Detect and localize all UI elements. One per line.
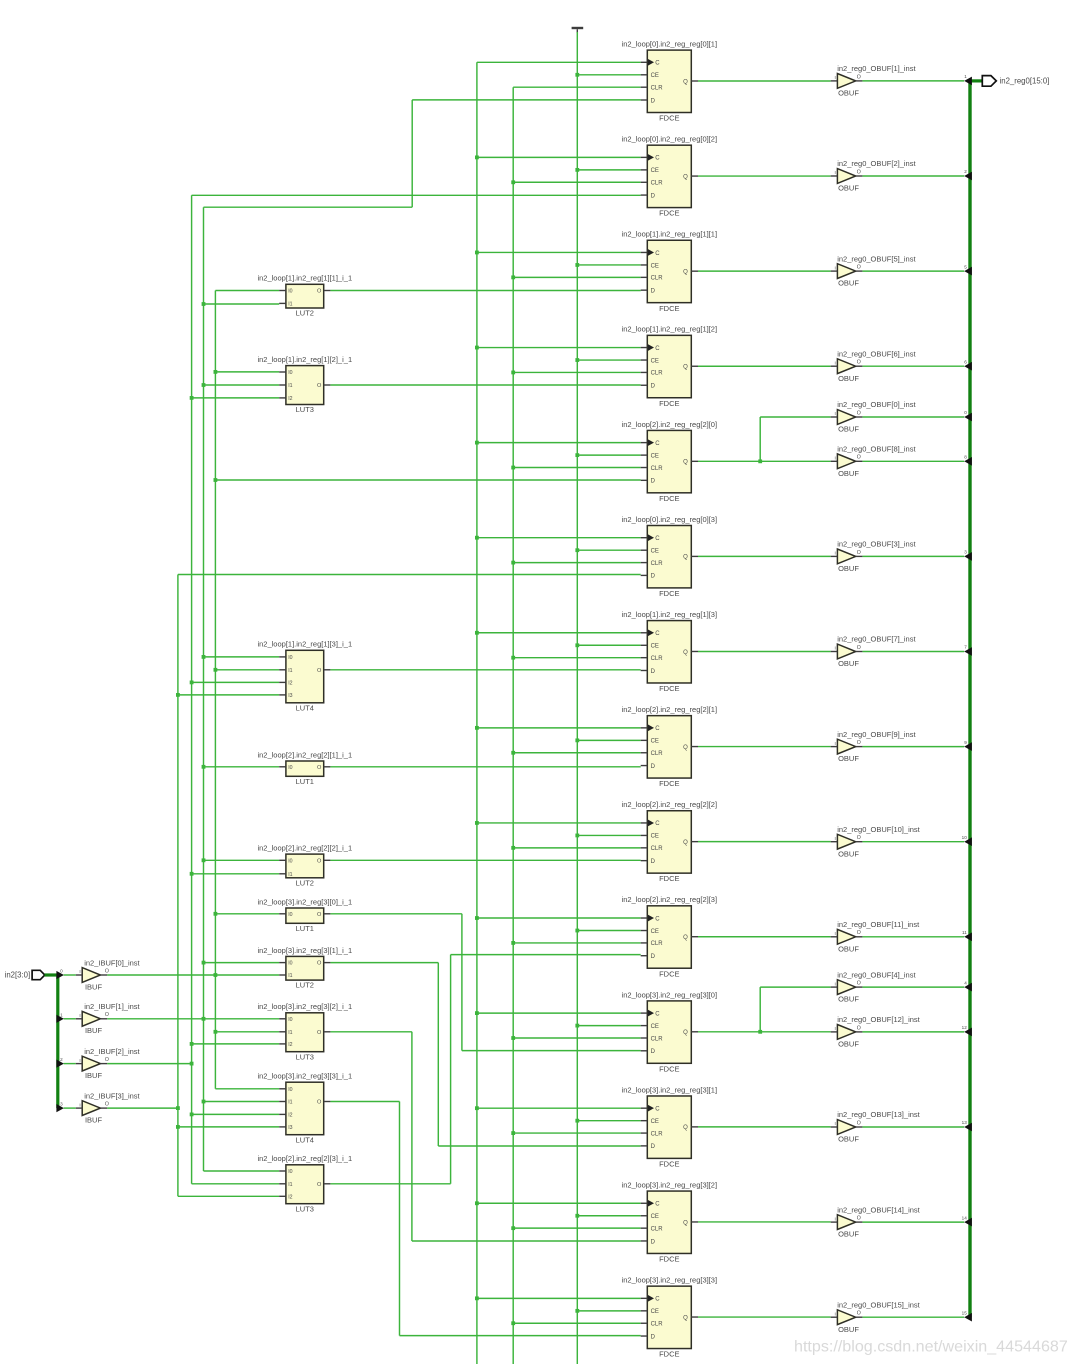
svg-text:in2_loop[3].in2_reg_reg[3][1]: in2_loop[3].in2_reg_reg[3][1] xyxy=(622,1085,718,1094)
svg-text:CE: CE xyxy=(651,549,659,555)
wire C into FDCE in2_loop[2].in2_reg_reg[2][1] xyxy=(475,726,641,730)
svg-text:Q: Q xyxy=(683,745,688,751)
svg-text:OBUF: OBUF xyxy=(838,1230,859,1239)
net LUT4[3][3] output to FDCE[3][3].D xyxy=(330,1102,640,1336)
svg-text:in2_reg0_OBUF[5]_inst: in2_reg0_OBUF[5]_inst xyxy=(837,254,916,263)
svg-text:in2_loop[1].in2_reg_reg[1][2]: in2_loop[1].in2_reg_reg[1][2] xyxy=(622,325,718,334)
wire CE into FDCE in2_loop[3].in2_reg_reg[3][3] xyxy=(575,1309,640,1313)
wire OBUF[3] output to out bus xyxy=(862,555,964,557)
LUT3 in2_loop[1].in2_reg[1][2]_i_1 xyxy=(257,355,352,414)
FDCE flip-flop in2_loop[1].in2_reg_reg[1][2] xyxy=(622,325,718,408)
svg-text:I0: I0 xyxy=(288,912,292,918)
wire CE into FDCE in2_loop[0].in2_reg_reg[0][3] xyxy=(575,548,640,552)
IBUF in2_IBUF[0]_inst xyxy=(76,958,141,991)
svg-text:FDCE: FDCE xyxy=(659,209,679,218)
net Q of in2_loop[3].in2_reg_reg[3][3] to OBUF xyxy=(698,1316,831,1318)
svg-text:in2_IBUF[1]_inst: in2_IBUF[1]_inst xyxy=(84,1002,140,1011)
svg-text:in2_loop[3].in2_reg_reg[3][2]: in2_loop[3].in2_reg_reg[3][2] xyxy=(622,1180,718,1189)
FDCE flip-flop in2_loop[2].in2_reg_reg[2][2] xyxy=(622,800,718,883)
wire C into FDCE in2_loop[2].in2_reg_reg[2][0] xyxy=(475,441,641,445)
net LUT3[2][3] output to FDCE[2][3].D xyxy=(330,955,640,1184)
wire OBUF[0] output to out bus xyxy=(862,416,964,418)
svg-text:O: O xyxy=(857,740,861,746)
svg-text:2: 2 xyxy=(60,1057,63,1062)
svg-text:I3: I3 xyxy=(288,693,292,699)
net LUT3[1][2] output to FDCE[1][2].D xyxy=(330,384,640,386)
svg-text:I0: I0 xyxy=(288,765,292,771)
wire CLR into FDCE in2_loop[3].in2_reg_reg[3][2] xyxy=(511,1226,640,1230)
svg-text:12: 12 xyxy=(962,1025,968,1030)
svg-text:I: I xyxy=(79,1058,80,1063)
svg-text:in2_IBUF[2]_inst: in2_IBUF[2]_inst xyxy=(84,1047,140,1056)
svg-text:I: I xyxy=(835,1121,836,1126)
svg-text:D: D xyxy=(651,954,656,960)
svg-text:CE: CE xyxy=(651,929,659,935)
svg-text:I0: I0 xyxy=(288,655,292,661)
wire C into FDCE in2_loop[1].in2_reg_reg[1][1] xyxy=(475,251,641,255)
svg-text:O: O xyxy=(317,289,322,295)
svg-text:LUT4: LUT4 xyxy=(296,703,314,712)
svg-text:C: C xyxy=(655,726,660,732)
svg-text:in2_loop[3].in2_reg_reg[3][3]: in2_loop[3].in2_reg_reg[3][3] xyxy=(622,1276,718,1285)
svg-text:O: O xyxy=(317,1030,322,1036)
svg-text:O: O xyxy=(857,360,861,366)
OBUF in2_reg0_OBUF[3]_inst xyxy=(831,540,917,573)
svg-text:OBUF: OBUF xyxy=(838,89,859,98)
svg-text:OBUF: OBUF xyxy=(838,564,859,573)
svg-text:O: O xyxy=(105,1102,109,1108)
svg-text:OBUF: OBUF xyxy=(838,374,859,383)
svg-text:LUT3: LUT3 xyxy=(296,1204,314,1213)
net in2_IBUF[1] : IBUF1 output to FDCE[0][1].D and LUT pins xyxy=(107,100,641,1171)
output bus tap arrow bit 12 xyxy=(962,1025,972,1036)
svg-text:C: C xyxy=(655,916,660,922)
net LUT1[3][0] output to FDCE[3][0].D xyxy=(330,914,640,1051)
svg-text:IBUF: IBUF xyxy=(85,982,103,991)
svg-text:I: I xyxy=(835,360,836,365)
svg-text:I: I xyxy=(835,75,836,80)
svg-text:in2_reg0_OBUF[7]_inst: in2_reg0_OBUF[7]_inst xyxy=(837,635,916,644)
LUT4 in2_loop[1].in2_reg[1][3]_i_1 xyxy=(257,640,352,713)
svg-text:O: O xyxy=(317,858,322,864)
input port in2[3:0] xyxy=(5,970,59,1108)
svg-text:I2: I2 xyxy=(288,396,292,402)
svg-text:I: I xyxy=(835,1311,836,1316)
net LUT2[2][2] output to FDCE[2][2].D xyxy=(330,859,640,861)
wire C into FDCE in2_loop[2].in2_reg_reg[2][3] xyxy=(475,916,641,920)
svg-text:13: 13 xyxy=(962,1120,968,1125)
svg-text:1: 1 xyxy=(964,74,967,79)
svg-text:CLR: CLR xyxy=(651,466,664,472)
svg-text:Q: Q xyxy=(683,365,688,371)
LUT3 in2_loop[2].in2_reg[2][3]_i_1 xyxy=(257,1154,352,1213)
svg-text:O: O xyxy=(317,765,322,771)
svg-text:O: O xyxy=(857,550,861,556)
svg-text:I0: I0 xyxy=(288,289,292,295)
OBUF in2_reg0_OBUF[13]_inst xyxy=(831,1110,921,1143)
svg-text:LUT4: LUT4 xyxy=(296,1135,314,1144)
svg-text:O: O xyxy=(857,645,861,651)
svg-text:I: I xyxy=(79,1102,80,1107)
net LUT3[3][2] output to FDCE[3][2].D xyxy=(330,1032,640,1241)
wire CE into FDCE in2_loop[2].in2_reg_reg[2][2] xyxy=(575,834,640,838)
output port in2_reg0[15:0] xyxy=(982,76,1049,87)
OBUF in2_reg0_OBUF[6]_inst xyxy=(831,349,917,382)
wire CLR into FDCE in2_loop[2].in2_reg_reg[2][3] xyxy=(511,941,640,945)
svg-text:IBUF: IBUF xyxy=(85,1071,103,1080)
wire CE into FDCE in2_loop[3].in2_reg_reg[3][0] xyxy=(575,1024,640,1028)
svg-text:Q: Q xyxy=(683,1220,688,1226)
wire CE into FDCE in2_loop[0].in2_reg_reg[0][2] xyxy=(575,168,640,172)
svg-text:C: C xyxy=(655,1011,660,1017)
wire CE into FDCE in2_loop[2].in2_reg_reg[2][0] xyxy=(575,453,640,457)
svg-text:O: O xyxy=(857,1025,861,1031)
IBUF in2_IBUF[2]_inst xyxy=(76,1047,141,1080)
LUT4 in2_loop[3].in2_reg[3][3]_i_1 xyxy=(257,1072,352,1145)
svg-text:I0: I0 xyxy=(288,961,292,967)
LUT1 in2_loop[3].in2_reg[3][0]_i_1 xyxy=(257,897,352,933)
svg-text:in2_reg0[15:0]: in2_reg0[15:0] xyxy=(1000,77,1050,86)
wire CE into FDCE in2_loop[2].in2_reg_reg[2][3] xyxy=(575,929,640,933)
wire CLR into FDCE in2_loop[0].in2_reg_reg[0][2] xyxy=(511,180,640,184)
wire CLR into FDCE in2_loop[2].in2_reg_reg[2][1] xyxy=(511,751,640,755)
OBUF in2_reg0_OBUF[10]_inst xyxy=(831,825,921,858)
svg-text:I: I xyxy=(835,456,836,461)
svg-text:LUT2: LUT2 xyxy=(296,981,314,990)
svg-text:I: I xyxy=(835,411,836,416)
wire C into FDCE in2_loop[3].in2_reg_reg[3][2] xyxy=(475,1201,641,1205)
net Q of in2_loop[0].in2_reg_reg[0][1] to OBUF xyxy=(698,80,831,82)
svg-text:in2_reg0_OBUF[0]_inst: in2_reg0_OBUF[0]_inst xyxy=(837,400,916,409)
wire CLR into FDCE in2_loop[0].in2_reg_reg[0][3] xyxy=(511,561,640,565)
svg-text:in2_reg0_OBUF[10]_inst: in2_reg0_OBUF[10]_inst xyxy=(837,825,920,834)
svg-text:O: O xyxy=(317,1100,322,1106)
LUT3 in2_loop[3].in2_reg[3][2]_i_1 xyxy=(257,1002,352,1061)
FDCE flip-flop in2_loop[3].in2_reg_reg[3][0] xyxy=(622,990,718,1073)
wire CLR into FDCE in2_loop[3].in2_reg_reg[3][3] xyxy=(511,1321,640,1325)
svg-text:O: O xyxy=(857,410,861,416)
svg-text:Q: Q xyxy=(683,840,688,846)
svg-text:I0: I0 xyxy=(288,1169,292,1175)
svg-text:O: O xyxy=(317,912,322,918)
svg-text:in2_loop[2].in2_reg[2][2]_i_1: in2_loop[2].in2_reg[2][2]_i_1 xyxy=(257,844,352,853)
svg-text:Q: Q xyxy=(683,174,688,180)
svg-text:Q: Q xyxy=(683,555,688,561)
net in2_IBUF[3] : IBUF3 output to FDCE[0][3].D and LUT pins xyxy=(107,575,641,1197)
svg-text:0: 0 xyxy=(964,410,967,415)
svg-text:Q: Q xyxy=(683,79,688,85)
output bus tap arrow bit 3 xyxy=(964,550,972,561)
wire CE net trunk with top bar xyxy=(572,27,584,1364)
output bus tap arrow bit 7 xyxy=(964,645,972,656)
wire CLR into FDCE in2_loop[0].in2_reg_reg[0][1] xyxy=(513,86,641,88)
svg-text:I1: I1 xyxy=(288,1100,292,1106)
wire C into FDCE in2_loop[1].in2_reg_reg[1][3] xyxy=(475,631,641,635)
wire OBUF[12] output to out bus xyxy=(862,1031,964,1033)
svg-text:in2_loop[2].in2_reg_reg[2][2]: in2_loop[2].in2_reg_reg[2][2] xyxy=(622,800,718,809)
svg-text:I: I xyxy=(835,551,836,556)
svg-text:FDCE: FDCE xyxy=(659,779,679,788)
svg-text:C: C xyxy=(655,631,660,637)
svg-text:CE: CE xyxy=(651,73,659,79)
wire CLR into FDCE in2_loop[1].in2_reg_reg[1][3] xyxy=(511,656,640,660)
LUT2 in2_loop[2].in2_reg[2][2]_i_1 xyxy=(257,844,352,888)
IBUF in2_IBUF[1]_inst xyxy=(76,1002,141,1035)
svg-text:in2_loop[1].in2_reg_reg[1][3]: in2_loop[1].in2_reg_reg[1][3] xyxy=(622,610,718,619)
svg-text:C: C xyxy=(655,1297,660,1303)
svg-text:I1: I1 xyxy=(288,973,292,979)
wire CLR into FDCE in2_loop[3].in2_reg_reg[3][0] xyxy=(511,1036,640,1040)
svg-text:CE: CE xyxy=(651,358,659,364)
wire C into FDCE in2_loop[3].in2_reg_reg[3][1] xyxy=(475,1106,641,1110)
svg-text:I0: I0 xyxy=(288,1087,292,1093)
input bus tap arrow 1 xyxy=(56,1012,75,1023)
IBUF in2_IBUF[3]_inst xyxy=(76,1092,141,1125)
wire OBUF[2] output to out bus xyxy=(862,175,964,177)
svg-text:15: 15 xyxy=(962,1310,968,1315)
FDCE flip-flop in2_loop[2].in2_reg_reg[2][1] xyxy=(622,705,718,788)
svg-text:OBUF: OBUF xyxy=(838,849,859,858)
OBUF in2_reg0_OBUF[8]_inst xyxy=(831,445,917,478)
svg-text:I: I xyxy=(79,1013,80,1018)
svg-text:14: 14 xyxy=(962,1215,968,1220)
svg-text:O: O xyxy=(857,265,861,271)
wire CLR into FDCE in2_loop[2].in2_reg_reg[2][0] xyxy=(511,466,640,470)
svg-text:in2_reg0_OBUF[13]_inst: in2_reg0_OBUF[13]_inst xyxy=(837,1110,920,1119)
wire OBUF[14] output to out bus xyxy=(862,1221,964,1223)
svg-text:CE: CE xyxy=(651,1214,659,1220)
svg-text:OBUF: OBUF xyxy=(838,469,859,478)
wire OBUF[8] output to out bus xyxy=(862,460,964,462)
svg-text:FDCE: FDCE xyxy=(659,589,679,598)
svg-text:I: I xyxy=(835,836,836,841)
svg-text:in2_loop[1].in2_reg_reg[1][1]: in2_loop[1].in2_reg_reg[1][1] xyxy=(622,230,718,239)
svg-text:O: O xyxy=(857,455,861,461)
svg-text:I0: I0 xyxy=(288,1017,292,1023)
wire C into FDCE in2_loop[1].in2_reg_reg[1][2] xyxy=(475,346,641,350)
wire OBUF[6] output to out bus xyxy=(862,365,964,367)
wire CLR into FDCE in2_loop[1].in2_reg_reg[1][2] xyxy=(511,371,640,375)
svg-text:CLR: CLR xyxy=(651,751,664,757)
net Q of in2_loop[0].in2_reg_reg[0][2] to OBUF xyxy=(698,175,831,177)
wire CE into FDCE in2_loop[1].in2_reg_reg[1][3] xyxy=(575,643,640,647)
svg-text:O: O xyxy=(105,1057,109,1063)
svg-text:in2_loop[2].in2_reg[2][3]_i_1: in2_loop[2].in2_reg[2][3]_i_1 xyxy=(257,1154,352,1163)
wire OBUF[1] output to out bus xyxy=(862,80,964,82)
svg-text:I3: I3 xyxy=(288,1125,292,1131)
svg-text:in2_IBUF[3]_inst: in2_IBUF[3]_inst xyxy=(84,1092,140,1101)
svg-text:C: C xyxy=(655,821,660,827)
svg-text:1: 1 xyxy=(60,1012,63,1017)
svg-text:O: O xyxy=(317,961,322,967)
svg-text:in2_loop[3].in2_reg[3][3]_i_1: in2_loop[3].in2_reg[3][3]_i_1 xyxy=(257,1072,352,1081)
net Q of in2_loop[3].in2_reg_reg[3][2] to OBUF xyxy=(698,1221,831,1223)
output bus tap arrow bit 1 xyxy=(964,74,972,85)
wire CLR into FDCE in2_loop[3].in2_reg_reg[3][1] xyxy=(511,1131,640,1135)
FDCE flip-flop in2_loop[1].in2_reg_reg[1][1] xyxy=(622,230,718,313)
svg-text:FDCE: FDCE xyxy=(659,304,679,313)
svg-text:8: 8 xyxy=(964,455,967,460)
OBUF in2_reg0_OBUF[7]_inst xyxy=(831,635,917,668)
input bus tap arrow 0 xyxy=(56,969,75,980)
svg-text:CLR: CLR xyxy=(651,656,664,662)
OBUF in2_reg0_OBUF[14]_inst xyxy=(831,1205,921,1238)
svg-text:OBUF: OBUF xyxy=(838,995,859,1004)
svg-text:0: 0 xyxy=(60,969,63,974)
svg-text:CE: CE xyxy=(651,263,659,269)
svg-text:Q: Q xyxy=(683,1030,688,1036)
OBUF in2_reg0_OBUF[1]_inst xyxy=(831,64,917,97)
svg-text:D: D xyxy=(651,479,656,485)
svg-text:Q: Q xyxy=(683,269,688,275)
output bus tap arrow bit 2 xyxy=(964,169,972,180)
svg-text:FDCE: FDCE xyxy=(659,399,679,408)
output bus tap arrow bit 5 xyxy=(964,264,972,275)
svg-text:in2_loop[2].in2_reg_reg[2][1]: in2_loop[2].in2_reg_reg[2][1] xyxy=(622,705,718,714)
svg-text:CLR: CLR xyxy=(651,1322,664,1328)
svg-text:Q: Q xyxy=(683,650,688,656)
input bus tap arrow 3 xyxy=(56,1102,75,1113)
svg-text:Q: Q xyxy=(683,1125,688,1131)
svg-text:LUT1: LUT1 xyxy=(296,924,314,933)
svg-text:I: I xyxy=(79,969,80,974)
OBUF in2_reg0_OBUF[4]_inst xyxy=(831,970,917,1003)
svg-text:D: D xyxy=(651,1049,656,1055)
wire C into FDCE in2_loop[3].in2_reg_reg[3][3] xyxy=(475,1296,641,1300)
output bus tap arrow bit 11 xyxy=(962,930,972,941)
LUT1 in2_loop[2].in2_reg[2][1]_i_1 xyxy=(257,750,352,786)
svg-text:FDCE: FDCE xyxy=(659,494,679,503)
svg-text:FDCE: FDCE xyxy=(659,1255,679,1264)
svg-text:10: 10 xyxy=(962,835,968,840)
svg-text:I: I xyxy=(835,741,836,746)
svg-text:I: I xyxy=(835,646,836,651)
OBUF in2_reg0_OBUF[9]_inst xyxy=(831,730,917,763)
svg-text:2: 2 xyxy=(964,169,967,174)
svg-text:IBUF: IBUF xyxy=(85,1116,103,1125)
svg-text:OBUF: OBUF xyxy=(838,944,859,953)
svg-text:I2: I2 xyxy=(288,1112,292,1118)
OBUF in2_reg0_OBUF[11]_inst xyxy=(831,920,920,953)
svg-text:O: O xyxy=(857,1311,861,1317)
FDCE flip-flop in2_loop[3].in2_reg_reg[3][1] xyxy=(622,1085,718,1168)
net LUT2[3][1] output to FDCE[3][1].D xyxy=(330,963,640,1146)
svg-text:CLR: CLR xyxy=(651,1131,664,1137)
wire C into FDCE in2_loop[2].in2_reg_reg[2][2] xyxy=(475,821,641,825)
svg-text:in2_loop[3].in2_reg[3][0]_i_1: in2_loop[3].in2_reg[3][0]_i_1 xyxy=(257,897,352,906)
svg-text:D: D xyxy=(651,1334,656,1340)
wire OBUF[7] output to out bus xyxy=(862,651,964,653)
svg-text:OBUF: OBUF xyxy=(838,425,859,434)
svg-text:I1: I1 xyxy=(288,668,292,674)
wire CLR net trunk xyxy=(512,87,514,1364)
svg-text:D: D xyxy=(651,1144,656,1150)
svg-text:in2_loop[3].in2_reg_reg[3][0]: in2_loop[3].in2_reg_reg[3][0] xyxy=(622,990,718,999)
svg-text:CE: CE xyxy=(651,453,659,459)
wire CLR into FDCE in2_loop[2].in2_reg_reg[2][2] xyxy=(511,846,640,850)
svg-text:in2_reg0_OBUF[2]_inst: in2_reg0_OBUF[2]_inst xyxy=(837,159,916,168)
OBUF in2_reg0_OBUF[0]_inst xyxy=(831,400,917,433)
svg-text:I2: I2 xyxy=(288,1194,292,1200)
FDCE flip-flop in2_loop[0].in2_reg_reg[0][1] xyxy=(622,40,718,123)
net Q of in2_loop[1].in2_reg_reg[1][2] to OBUF xyxy=(698,365,831,367)
svg-text:in2_reg0_OBUF[15]_inst: in2_reg0_OBUF[15]_inst xyxy=(837,1300,920,1309)
svg-text:OBUF: OBUF xyxy=(838,1325,859,1334)
svg-text:D: D xyxy=(651,859,656,865)
svg-text:3: 3 xyxy=(964,550,967,555)
svg-text:LUT2: LUT2 xyxy=(296,878,314,887)
svg-text:in2_reg0_OBUF[9]_inst: in2_reg0_OBUF[9]_inst xyxy=(837,730,916,739)
svg-text:in2_loop[1].in2_reg[1][1]_i_1: in2_loop[1].in2_reg[1][1]_i_1 xyxy=(257,274,352,283)
svg-text:in2_loop[2].in2_reg_reg[2][0]: in2_loop[2].in2_reg_reg[2][0] xyxy=(622,420,718,429)
svg-text:in2_loop[2].in2_reg[2][1]_i_1: in2_loop[2].in2_reg[2][1]_i_1 xyxy=(257,750,352,759)
svg-text:Q: Q xyxy=(683,1315,688,1321)
svg-text:in2_loop[1].in2_reg[1][3]_i_1: in2_loop[1].in2_reg[1][3]_i_1 xyxy=(257,640,352,649)
svg-text:O: O xyxy=(105,968,109,974)
svg-text:CLR: CLR xyxy=(651,846,664,852)
net Q of in2_loop[1].in2_reg_reg[1][1] to OBUF xyxy=(698,270,831,272)
svg-text:C: C xyxy=(655,1202,660,1208)
svg-text:CE: CE xyxy=(651,644,659,650)
svg-text:in2_loop[3].in2_reg[3][1]_i_1: in2_loop[3].in2_reg[3][1]_i_1 xyxy=(257,946,352,955)
net Q of in2_loop[2].in2_reg_reg[2][2] to OBUF xyxy=(698,841,831,843)
input bus tap arrow 2 xyxy=(56,1057,75,1068)
net LUT1[2][1] output to FDCE[2][1].D xyxy=(330,766,640,768)
svg-text:OBUF: OBUF xyxy=(838,1135,859,1144)
net Q of in2_loop[2].in2_reg_reg[2][3] to OBUF xyxy=(698,936,831,938)
svg-text:5: 5 xyxy=(964,264,967,269)
wire OBUF[15] output to out bus xyxy=(862,1316,964,1318)
svg-text:OBUF: OBUF xyxy=(838,754,859,763)
svg-text:I2: I2 xyxy=(288,680,292,686)
svg-text:in2_loop[1].in2_reg[1][2]_i_1: in2_loop[1].in2_reg[1][2]_i_1 xyxy=(257,355,352,364)
svg-text:CLR: CLR xyxy=(651,181,664,187)
net Q of in2_loop[2].in2_reg_reg[2][1] to OBUF xyxy=(698,746,831,748)
svg-text:in2_loop[0].in2_reg_reg[0][3]: in2_loop[0].in2_reg_reg[0][3] xyxy=(622,515,718,524)
net LUT2[1][1] output to FDCE[1][1].D xyxy=(330,290,640,292)
svg-text:in2_reg0_OBUF[11]_inst: in2_reg0_OBUF[11]_inst xyxy=(837,920,920,929)
svg-text:D: D xyxy=(651,193,656,199)
wire CE into FDCE in2_loop[3].in2_reg_reg[3][2] xyxy=(575,1214,640,1218)
svg-text:FDCE: FDCE xyxy=(659,1064,679,1073)
wire CE into FDCE in2_loop[1].in2_reg_reg[1][1] xyxy=(575,263,640,267)
svg-text:FDCE: FDCE xyxy=(659,969,679,978)
svg-text:OBUF: OBUF xyxy=(838,659,859,668)
svg-text:in2_loop[0].in2_reg_reg[0][2]: in2_loop[0].in2_reg_reg[0][2] xyxy=(622,135,718,144)
output bus tap arrow bit 10 xyxy=(962,835,972,846)
OBUF in2_reg0_OBUF[15]_inst xyxy=(831,1300,921,1333)
svg-text:O: O xyxy=(857,1120,861,1126)
svg-text:C: C xyxy=(655,251,660,257)
output bus tap arrow bit 4 xyxy=(964,980,972,991)
watermark xyxy=(794,1338,1068,1356)
svg-text:CLR: CLR xyxy=(651,276,664,282)
svg-text:11: 11 xyxy=(962,930,967,935)
wire CLR into FDCE in2_loop[1].in2_reg_reg[1][1] xyxy=(511,275,640,279)
svg-text:I0: I0 xyxy=(288,858,292,864)
svg-text:I1: I1 xyxy=(288,383,292,389)
wire C into FDCE in2_loop[0].in2_reg_reg[0][2] xyxy=(475,155,641,159)
wire C into FDCE in2_loop[3].in2_reg_reg[3][0] xyxy=(475,1011,641,1015)
svg-text:in2_loop[3].in2_reg[3][2]_i_1: in2_loop[3].in2_reg[3][2]_i_1 xyxy=(257,1002,352,1011)
svg-text:in2_reg0_OBUF[6]_inst: in2_reg0_OBUF[6]_inst xyxy=(837,349,916,358)
svg-text:O: O xyxy=(857,930,861,936)
svg-text:CE: CE xyxy=(651,168,659,174)
svg-text:I: I xyxy=(835,981,836,986)
svg-text:OBUF: OBUF xyxy=(838,1040,859,1049)
svg-text:C: C xyxy=(655,156,660,162)
OBUF in2_reg0_OBUF[12]_inst xyxy=(831,1015,921,1048)
